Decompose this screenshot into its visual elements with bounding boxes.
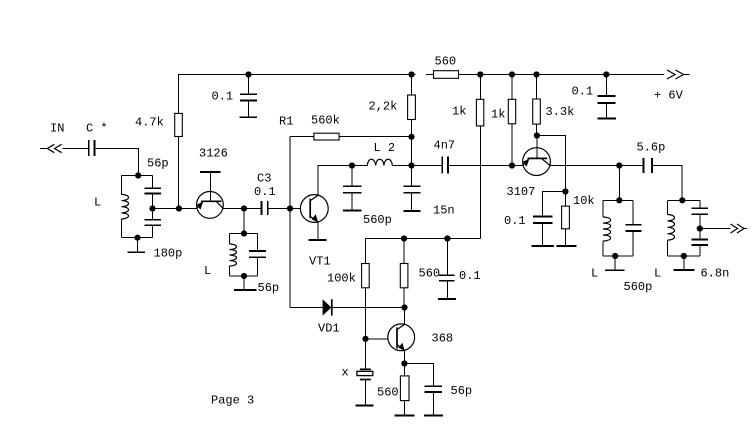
node tank3 top: [616, 197, 622, 203]
node tank3 bottom: [612, 253, 618, 259]
wire tank3 bottom: [603, 255, 633, 257]
svg-text:1k: 1k: [452, 105, 466, 119]
wire node down to tank2: [243, 209, 245, 234]
node 368 base: [362, 336, 368, 342]
node input tank top: [135, 172, 141, 178]
wire tank tap to 3126 emitter: [153, 208, 197, 210]
inductor L (tank3): [602, 200, 604, 217]
ground: [239, 116, 256, 118]
node rail/0.1 right: [603, 71, 609, 77]
svg-text:10k: 10k: [573, 194, 595, 208]
wire tank2 top: [230, 233, 258, 235]
node tank2 bottom: [241, 273, 247, 279]
svg-text:560: 560: [377, 386, 399, 400]
svg-text:C *: C *: [86, 122, 108, 136]
wire 5.6p to tank4: [653, 166, 682, 201]
capacitor 560p (VT1 collector): [351, 166, 353, 186]
inductor L (input tank): [121, 176, 123, 195]
wire input tank top: [122, 175, 153, 177]
svg-text:100k: 100k: [327, 272, 356, 286]
capacitor 56p (emitter): [424, 385, 442, 387]
svg-text:L: L: [591, 267, 598, 281]
node rail/0.1: [245, 71, 251, 77]
ground 0.1 mid: [438, 298, 456, 300]
svg-text:C3: C3: [257, 172, 271, 186]
node input tank tap: [149, 205, 155, 211]
svg-text:560p: 560p: [363, 213, 392, 227]
wire node to 5.6p: [619, 165, 643, 167]
resistor 2,2k: [411, 75, 413, 166]
svg-text:560p: 560p: [624, 280, 653, 294]
wire emitter to 56p: [404, 364, 433, 386]
capacitor 0.1 (mid): [446, 239, 448, 275]
ground crystal: [356, 404, 374, 406]
wire collector down: [404, 308, 406, 325]
resistor 100k: [365, 239, 367, 339]
resistor 10k: [564, 192, 566, 246]
svg-text:Page 3: Page 3: [211, 394, 254, 408]
svg-text:56p: 56p: [451, 384, 473, 398]
node tank2 top: [241, 230, 247, 236]
capacitor 0.1 (3107 base): [533, 216, 553, 218]
capacitor 180p (input tank bottom): [152, 209, 154, 220]
node 3126/C3/tank2: [241, 205, 247, 211]
svg-text:56p: 56p: [147, 157, 169, 171]
wire rail segment before 560 resistor: [426, 74, 434, 76]
wire base: [366, 338, 389, 340]
svg-text:3107: 3107: [507, 185, 536, 199]
wire 3107 base up: [536, 136, 538, 159]
svg-text:R1: R1: [279, 115, 293, 129]
wire tank4 top: [668, 199, 700, 201]
svg-text:5.6p: 5.6p: [637, 141, 666, 155]
node 1k second bottom: [509, 162, 515, 168]
capacitor C*: [88, 140, 90, 156]
svg-text:6.8n: 6.8n: [701, 267, 730, 281]
input arrow: [40, 148, 47, 150]
svg-text:3.3k: 3.3k: [546, 105, 575, 119]
wire 3126 collector to node: [223, 208, 244, 210]
wire tank3 top: [603, 199, 633, 201]
svg-text:2,2k: 2,2k: [369, 100, 398, 114]
transistor 3107: [523, 148, 551, 176]
svg-text:+ 6V: + 6V: [654, 89, 684, 103]
ground 0.1 top right: [597, 117, 616, 119]
resistor 1k (first): [479, 75, 481, 239]
capacitor 5.6p: [643, 158, 645, 173]
wire tank4 bottom: [668, 255, 700, 257]
svg-text:0.1: 0.1: [212, 90, 234, 104]
wire VD1 anode: [290, 307, 323, 309]
ground 560p: [343, 210, 362, 212]
node 560 top: [401, 235, 407, 241]
svg-text:L 2: L 2: [374, 141, 396, 155]
svg-text:15n: 15n: [433, 204, 455, 218]
svg-text:0.1: 0.1: [254, 185, 276, 199]
ground 56p emitter: [424, 415, 443, 417]
node rail/1k first: [477, 71, 483, 77]
svg-text:L: L: [654, 267, 661, 281]
resistor 1k (second): [511, 75, 513, 166]
svg-text:x: x: [342, 366, 349, 380]
node rail/1k second: [509, 71, 515, 77]
node tank4 tap: [697, 225, 703, 231]
inductor L (tank2): [229, 234, 231, 245]
svg-text:56p: 56p: [258, 281, 280, 295]
svg-text:1k: 1k: [491, 108, 505, 122]
output arrow right: [731, 224, 738, 233]
svg-text:560k: 560k: [311, 114, 340, 128]
ground tank2: [243, 276, 245, 289]
node 0.1 top: [444, 235, 450, 241]
node L2 left: [349, 162, 355, 168]
capacitor 4n7: [441, 157, 443, 174]
ground 10k: [556, 245, 576, 247]
svg-text:368: 368: [432, 332, 454, 346]
svg-text:L: L: [204, 264, 211, 278]
node R1/2.2k: [408, 134, 414, 140]
capacitor 6.8n lower (tank4): [699, 229, 701, 239]
svg-text:560: 560: [435, 55, 457, 69]
ground VT1 emitter: [317, 222, 319, 239]
svg-text:0.1: 0.1: [459, 269, 481, 283]
transistor VT1: [300, 195, 328, 223]
capacitor C3 0.1: [260, 201, 262, 215]
node tank4 top: [679, 197, 685, 203]
wire VT1 collector up: [318, 166, 352, 196]
wire 3107 collector to output: [550, 165, 619, 167]
wire rail right segment: [459, 74, 665, 76]
ground 0.1 (3107 base): [531, 245, 554, 247]
node output / 5.6p: [616, 162, 622, 168]
svg-text:4n7: 4n7: [434, 139, 456, 153]
node VT1 base / R1 line: [287, 205, 293, 211]
resistor 560 (mid): [403, 239, 405, 308]
node 368 collector: [401, 304, 407, 310]
svg-text:3126: 3126: [199, 147, 228, 161]
wire 4n7 to 3107 emitter: [449, 165, 523, 167]
ground 560 emitter: [395, 415, 415, 417]
node 4.7k bottom: [176, 205, 182, 211]
transistor 368: [388, 324, 415, 351]
diode VD1: [323, 299, 332, 315]
wire bias to 0.1: [542, 192, 565, 217]
wire node to C3: [244, 208, 261, 210]
wire node to tank3: [618, 166, 620, 201]
node rail/2,2k: [408, 71, 414, 77]
wire C3 to VT1 base: [268, 208, 300, 210]
wire C* to tank node: [95, 149, 139, 176]
svg-text:0.1: 0.1: [504, 214, 526, 228]
capacitor 56p (input tank top): [152, 176, 154, 188]
resistor 560 (top rail): [434, 71, 459, 79]
node 3.3k bottom / 3107 base: [534, 132, 540, 138]
ground 3126 base (bar up): [209, 173, 211, 202]
svg-text:IN: IN: [50, 122, 64, 136]
wire R1 feedback vertical: [289, 137, 291, 308]
ground tank3: [614, 256, 616, 269]
svg-text:VD1: VD1: [318, 322, 340, 336]
node rail/3.3k: [533, 71, 539, 77]
wire L2 to 4n7: [412, 165, 442, 167]
capacitor 15n: [411, 166, 413, 186]
wire VD1 cathode to 368 collector: [332, 307, 405, 309]
capacitor 560p (tank3): [632, 200, 634, 224]
ground tank4: [683, 256, 685, 269]
crystal x: [365, 339, 367, 369]
inductor L 2: [352, 165, 367, 167]
wire 1k first bottom across: [366, 238, 481, 240]
wire top supply rail left segment: [179, 75, 416, 114]
wire output tap: [700, 228, 731, 230]
inductor L (tank4): [667, 200, 669, 214]
svg-text:VT1: VT1: [309, 255, 331, 269]
node tank4 bottom: [681, 253, 687, 259]
ground 15n: [403, 210, 420, 212]
svg-text:180p: 180p: [154, 247, 183, 261]
wire 368 emitter down: [403, 351, 405, 364]
node input tank bottom: [134, 235, 140, 241]
svg-text:L: L: [94, 196, 101, 210]
resistor 3.3k: [536, 75, 538, 136]
svg-text:4.7k: 4.7k: [135, 116, 164, 130]
wire tank2 bottom: [230, 275, 258, 277]
resistor 560 (emitter): [403, 364, 405, 376]
capacitor 0.1 (top right): [605, 75, 607, 96]
wire input to C*: [63, 148, 89, 150]
capacitor 56p (tank2): [257, 234, 259, 251]
capacitor 0.1 (top left decoupling): [248, 75, 250, 94]
node bias / 10k: [562, 188, 568, 194]
wire 3107 base bias across: [537, 136, 566, 192]
svg-text:0.1: 0.1: [572, 85, 594, 99]
ground input tank: [137, 238, 139, 252]
transistor 3126: [197, 192, 224, 219]
wire input tank bottom: [122, 237, 153, 239]
node L2 right: [408, 162, 414, 168]
resistor 4.7k: [178, 113, 180, 209]
resistor R1 560k: [290, 136, 314, 138]
supply arrow output top right: [667, 70, 675, 79]
svg-text:560: 560: [419, 267, 441, 281]
capacitor 6.8n upper (tank4): [699, 200, 701, 207]
node 368 emitter: [401, 360, 407, 366]
